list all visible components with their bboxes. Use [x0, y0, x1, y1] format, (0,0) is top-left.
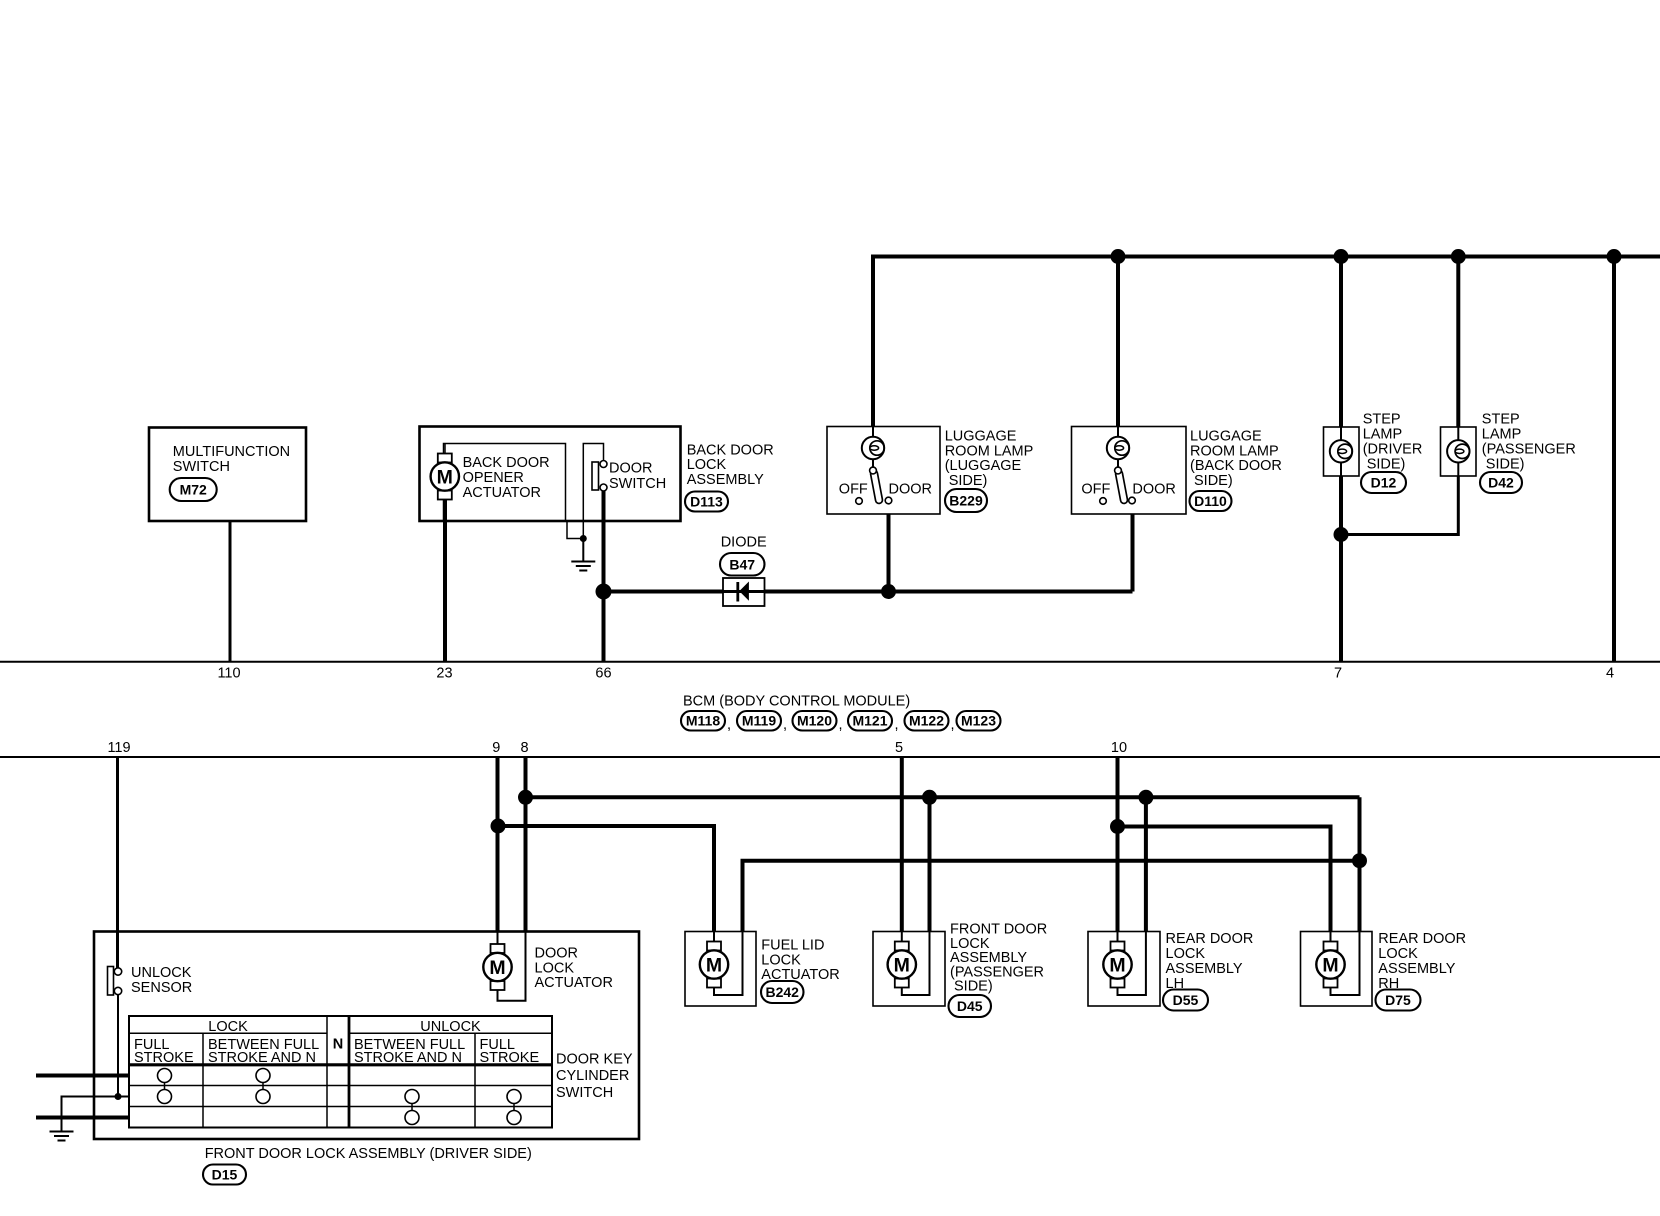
- svg-text:REAR DOOR: REAR DOOR: [1378, 931, 1466, 947]
- svg-text:,: ,: [783, 717, 787, 733]
- svg-text:D55: D55: [1173, 992, 1199, 1008]
- svg-text:110: 110: [217, 666, 240, 682]
- svg-text:SIDE): SIDE): [949, 473, 988, 489]
- svg-text:CYLINDER: CYLINDER: [556, 1068, 629, 1084]
- svg-text:LOCK: LOCK: [208, 1019, 248, 1035]
- svg-text:66: 66: [595, 666, 611, 682]
- svg-text:,: ,: [839, 717, 843, 733]
- svg-text:STROKE: STROKE: [134, 1050, 194, 1066]
- svg-text:4: 4: [1606, 666, 1614, 682]
- svg-text:B229: B229: [949, 493, 983, 509]
- svg-text:ACTUATOR: ACTUATOR: [535, 975, 613, 991]
- svg-text:,: ,: [727, 717, 731, 733]
- svg-text:,: ,: [951, 717, 955, 733]
- svg-text:ROOM LAMP: ROOM LAMP: [945, 443, 1034, 459]
- svg-text:REAR DOOR: REAR DOOR: [1166, 931, 1254, 947]
- svg-text:M119: M119: [742, 713, 776, 729]
- svg-text:7: 7: [1334, 666, 1342, 682]
- svg-text:DOOR: DOOR: [535, 945, 579, 961]
- svg-text:SIDE): SIDE): [1486, 456, 1525, 472]
- svg-text:OPENER: OPENER: [463, 470, 524, 486]
- svg-text:STROKE AND N: STROKE AND N: [208, 1050, 316, 1066]
- svg-text:ASSEMBLY: ASSEMBLY: [687, 472, 764, 488]
- svg-text:STEP: STEP: [1363, 412, 1401, 428]
- svg-text:M122: M122: [909, 713, 944, 729]
- svg-text:(PASSENGER: (PASSENGER: [1482, 442, 1576, 458]
- svg-text:DOOR: DOOR: [1132, 482, 1176, 498]
- svg-text:BACK DOOR: BACK DOOR: [687, 442, 774, 458]
- svg-text:M123: M123: [961, 713, 996, 729]
- svg-text:SIDE): SIDE): [1367, 456, 1406, 472]
- svg-text:ASSEMBLY: ASSEMBLY: [1378, 961, 1455, 977]
- svg-text:UNLOCK: UNLOCK: [131, 965, 192, 981]
- svg-text:ACTUATOR: ACTUATOR: [463, 485, 541, 501]
- svg-text:LOCK: LOCK: [1378, 946, 1418, 962]
- svg-text:LOCK: LOCK: [761, 952, 801, 968]
- svg-text:D113: D113: [690, 494, 723, 510]
- svg-text:ROOM LAMP: ROOM LAMP: [1190, 443, 1279, 459]
- svg-text:5: 5: [895, 740, 903, 756]
- svg-text:STEP: STEP: [1482, 412, 1520, 428]
- svg-text:STROKE AND N: STROKE AND N: [354, 1050, 462, 1066]
- svg-text:BCM (BODY CONTROL MODULE): BCM (BODY CONTROL MODULE): [683, 693, 910, 709]
- svg-text:SIDE): SIDE): [1194, 473, 1233, 489]
- svg-text:D15: D15: [212, 1167, 238, 1183]
- svg-text:DOOR KEY: DOOR KEY: [556, 1051, 633, 1067]
- svg-text:LUGGAGE: LUGGAGE: [945, 428, 1017, 444]
- svg-text:ASSEMBLY: ASSEMBLY: [1166, 961, 1243, 977]
- svg-text:(DRIVER: (DRIVER: [1363, 442, 1423, 458]
- svg-text:DOOR: DOOR: [889, 482, 933, 498]
- svg-text:SWITCH: SWITCH: [556, 1085, 613, 1101]
- svg-text:D110: D110: [1194, 493, 1227, 509]
- svg-text:(BACK DOOR: (BACK DOOR: [1190, 458, 1282, 474]
- svg-text:B47: B47: [729, 557, 755, 573]
- svg-text:LOCK: LOCK: [535, 960, 575, 976]
- svg-text:M118: M118: [686, 713, 720, 729]
- svg-text:9: 9: [492, 740, 500, 756]
- svg-text:MULTIFUNCTION: MULTIFUNCTION: [173, 444, 290, 460]
- svg-text:SENSOR: SENSOR: [131, 980, 192, 996]
- svg-text:D75: D75: [1385, 992, 1411, 1008]
- svg-text:D42: D42: [1488, 475, 1514, 491]
- svg-text:SWITCH: SWITCH: [609, 476, 666, 492]
- svg-text:23: 23: [436, 666, 452, 682]
- svg-text:UNLOCK: UNLOCK: [420, 1019, 481, 1035]
- svg-text:FUEL LID: FUEL LID: [761, 937, 824, 953]
- svg-text:N: N: [333, 1037, 343, 1053]
- svg-text:FRONT DOOR LOCK ASSEMBLY (DRIV: FRONT DOOR LOCK ASSEMBLY (DRIVER SIDE): [205, 1146, 532, 1162]
- svg-text:DOOR: DOOR: [609, 461, 653, 477]
- svg-text:DIODE: DIODE: [721, 534, 767, 550]
- svg-text:LOCK: LOCK: [687, 457, 727, 473]
- svg-text:LUGGAGE: LUGGAGE: [1190, 428, 1262, 444]
- svg-text:LOCK: LOCK: [1166, 946, 1206, 962]
- svg-text:SWITCH: SWITCH: [173, 459, 230, 475]
- svg-text:M120: M120: [797, 713, 832, 729]
- svg-text:D12: D12: [1371, 475, 1397, 491]
- svg-text:(LUGGAGE: (LUGGAGE: [945, 458, 1022, 474]
- svg-text:8: 8: [520, 740, 528, 756]
- svg-text:10: 10: [1111, 740, 1127, 756]
- svg-text:STROKE: STROKE: [480, 1050, 540, 1066]
- svg-text:SIDE): SIDE): [954, 979, 993, 995]
- svg-text:D45: D45: [957, 998, 983, 1014]
- svg-text:LAMP: LAMP: [1363, 427, 1403, 443]
- svg-text:BACK DOOR: BACK DOOR: [463, 455, 550, 471]
- svg-text:M72: M72: [180, 482, 207, 498]
- svg-text:OFF: OFF: [1081, 482, 1110, 498]
- svg-text:LAMP: LAMP: [1482, 427, 1522, 443]
- svg-text:119: 119: [107, 740, 130, 756]
- svg-text:M121: M121: [852, 713, 887, 729]
- svg-text:B242: B242: [765, 984, 799, 1000]
- svg-text:OFF: OFF: [839, 482, 868, 498]
- svg-text:,: ,: [895, 717, 899, 733]
